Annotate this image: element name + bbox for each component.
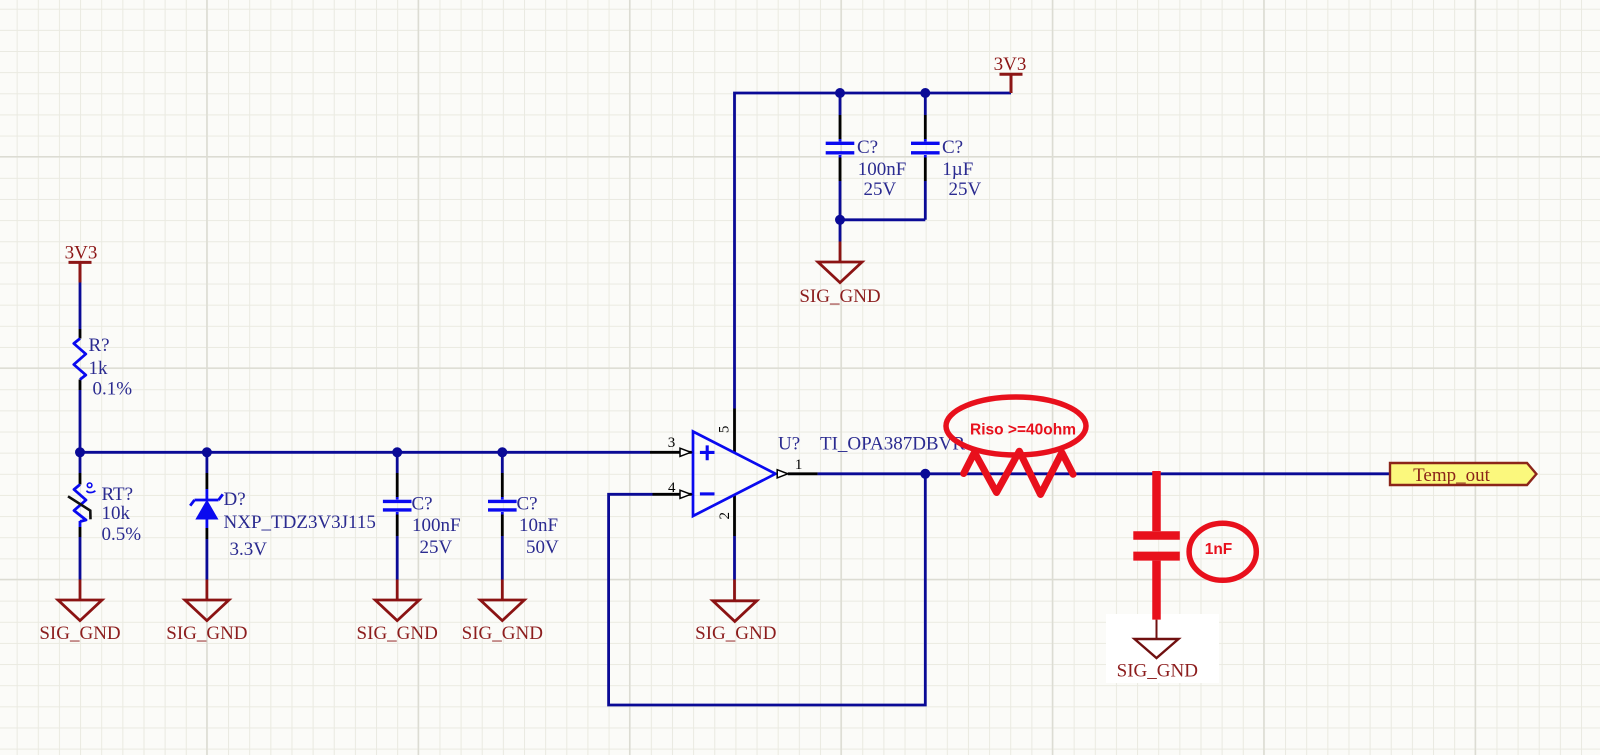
svg-text:5: 5	[716, 426, 732, 434]
svg-text:100nF: 100nF	[858, 159, 907, 180]
svg-text:0.1%: 0.1%	[93, 379, 133, 400]
svg-text:25V: 25V	[420, 537, 453, 558]
svg-text:R?: R?	[89, 335, 110, 356]
svg-text:1k: 1k	[89, 358, 109, 379]
svg-text:TI_OPA387DBVR: TI_OPA387DBVR	[820, 434, 965, 455]
svg-text:0.5%: 0.5%	[102, 524, 142, 545]
svg-text:SIG_GND: SIG_GND	[39, 623, 120, 644]
svg-text:C?: C?	[857, 137, 878, 158]
svg-text:25V: 25V	[949, 179, 982, 200]
svg-text:U?: U?	[778, 434, 800, 455]
svg-text:SIG_GND: SIG_GND	[357, 623, 438, 644]
svg-text:3V3: 3V3	[994, 54, 1027, 75]
svg-text:C?: C?	[412, 493, 433, 514]
svg-text:50V: 50V	[526, 537, 559, 558]
svg-text:SIG_GND: SIG_GND	[462, 623, 543, 644]
svg-text:C?: C?	[517, 493, 538, 514]
svg-text:SIG_GND: SIG_GND	[1117, 660, 1198, 681]
svg-text:D?: D?	[224, 489, 246, 510]
svg-text:NXP_TDZ3V3J115: NXP_TDZ3V3J115	[224, 512, 376, 533]
svg-text:1µF: 1µF	[942, 159, 973, 180]
svg-text:SIG_GND: SIG_GND	[799, 286, 880, 307]
svg-text:3: 3	[668, 435, 676, 451]
svg-text:RT?: RT?	[102, 484, 134, 505]
svg-text:25V: 25V	[864, 179, 897, 200]
svg-text:Riso >=40ohm: Riso >=40ohm	[970, 422, 1076, 439]
svg-text:1nF: 1nF	[1205, 541, 1233, 558]
svg-text:2: 2	[717, 512, 733, 520]
svg-text:4: 4	[668, 480, 676, 496]
svg-text:3V3: 3V3	[65, 242, 98, 263]
svg-text:Temp_out: Temp_out	[1413, 465, 1490, 486]
svg-text:10k: 10k	[102, 503, 131, 524]
svg-text:10nF: 10nF	[519, 515, 558, 536]
svg-text:C?: C?	[942, 137, 963, 158]
svg-text:100nF: 100nF	[412, 515, 461, 536]
svg-text:3.3V: 3.3V	[230, 539, 268, 560]
svg-text:SIG_GND: SIG_GND	[695, 623, 776, 644]
svg-text:1: 1	[795, 457, 803, 473]
svg-text:SIG_GND: SIG_GND	[166, 623, 247, 644]
